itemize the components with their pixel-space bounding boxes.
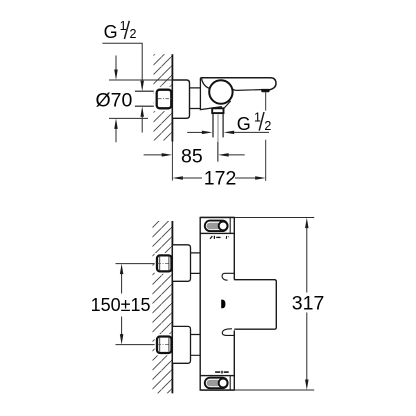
pipe centerline <box>217 115 219 162</box>
wall face line (top view) <box>171 54 173 141</box>
wall hatch (bottom view) <box>153 221 173 393</box>
G1/2 middle dimension arrows <box>187 131 203 133</box>
bottom inlet connector lines <box>191 335 201 356</box>
union nut (top view) <box>157 90 172 109</box>
svg-text:G: G <box>104 22 118 42</box>
top inlet centerline <box>116 263 157 265</box>
bottom inlet centerline <box>116 344 157 346</box>
top knob block <box>200 218 234 234</box>
bottom knob block <box>200 376 234 390</box>
top inlet block (escutcheon, bottom view) <box>172 245 190 281</box>
flow markings above bottom knob <box>215 371 220 373</box>
bottom knob circle button <box>219 379 228 388</box>
union nut white halo <box>154 87 172 111</box>
317 dimension line and arrows <box>305 218 309 229</box>
svg-text:317: 317 <box>292 292 325 314</box>
svg-text:150±15: 150±15 <box>91 295 151 315</box>
top knob gray pill <box>207 223 221 230</box>
150+-15 dimension <box>120 264 124 275</box>
bottom hex nut <box>157 337 172 354</box>
top hex nut <box>157 255 172 271</box>
body left edge + bottom slant A <box>200 78 222 110</box>
thermostat knob circle <box>209 80 232 103</box>
svg-text:1: 1 <box>120 19 127 33</box>
G1/2 top leader line <box>102 43 142 82</box>
body outline (bottom view) <box>200 218 235 391</box>
wall face extension line down to 172-dim <box>171 142 173 181</box>
aerator (mousseur) under spout tip <box>261 89 269 92</box>
G1/2 lower arrow (nipple bottom) <box>141 116 143 133</box>
bottom knob capsule <box>205 378 228 389</box>
slant B under circle right <box>224 101 231 109</box>
spout bottom fillet hook <box>222 329 234 336</box>
172 dimension <box>172 176 183 180</box>
svg-text:2: 2 <box>264 119 271 133</box>
nipple pipe lines (left of union nut) <box>135 91 157 106</box>
svg-text:85: 85 <box>181 145 203 167</box>
dia70 extension line bottom <box>109 117 148 119</box>
svg-text:1: 1 <box>254 111 261 125</box>
svg-text:Ø70: Ø70 <box>96 90 133 112</box>
top inlet connector lines <box>191 253 201 274</box>
escutcheon (top view) <box>172 80 189 118</box>
top knob capsule <box>205 221 228 232</box>
dia70 arrow lower <box>115 128 117 142</box>
317 dimension extension lines <box>235 217 315 219</box>
dia70 arrow upper <box>115 56 117 71</box>
dia70 extension line top <box>109 79 172 81</box>
svg-text:G: G <box>237 114 251 134</box>
bottom hex nut white halo <box>155 334 172 355</box>
spout underside <box>237 89 262 92</box>
svg-text:172: 172 <box>204 167 237 189</box>
temperature markings under top knob <box>210 236 212 239</box>
top hex nut white halo <box>155 253 172 274</box>
svg-text:2: 2 <box>130 27 137 41</box>
union nut centerline (dash-dot) <box>158 98 173 100</box>
wall face line (bottom view) <box>171 221 173 393</box>
top knob circle button <box>219 222 228 231</box>
bottom inlet block (escutcheon, bottom view) <box>172 326 190 363</box>
spout top fillet hook <box>222 273 234 280</box>
right concave fillet from knob to spout underside <box>232 89 236 91</box>
wall hatch (top view) <box>154 54 173 140</box>
shower pipe <box>213 113 223 137</box>
85 dimension <box>144 154 163 156</box>
shower pipe collar <box>212 108 223 113</box>
spout (bottom view) <box>234 280 276 330</box>
spout top edge and tip <box>200 78 276 90</box>
black indicator mark on body <box>221 300 225 309</box>
connector between escutcheon and body <box>190 88 201 109</box>
aerator extension line (vertical, broken at text) <box>265 92 267 181</box>
left concave fillet into knob <box>202 79 211 89</box>
bottom knob gray pill <box>207 380 221 387</box>
